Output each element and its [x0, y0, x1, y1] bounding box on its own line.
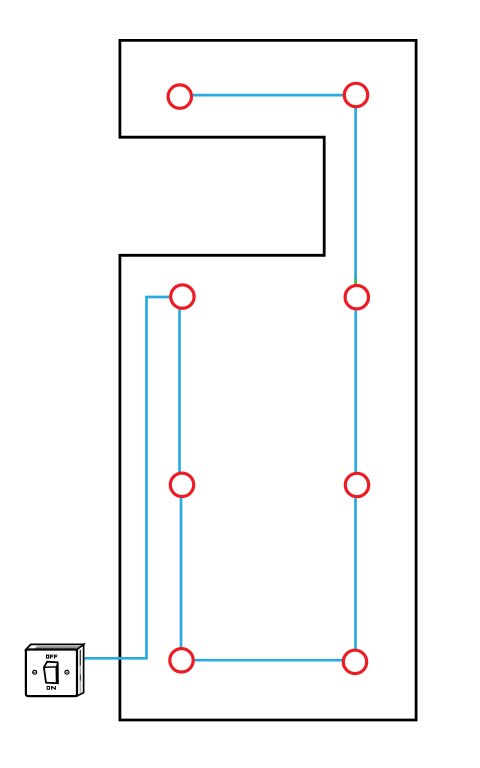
switch top face shading dark	[35, 646, 83, 648]
lamp L3	[170, 473, 193, 496]
switch right face	[77, 644, 84, 696]
toggle body	[44, 662, 58, 684]
label ON	[47, 686, 56, 690]
switch right face streak low	[79, 675, 81, 681]
switch right face streak top	[79, 650, 81, 666]
toggle top face line	[44, 666, 56, 668]
lamp R1	[344, 83, 367, 106]
screw left	[33, 670, 37, 674]
switch top face	[26, 644, 84, 649]
wire W2: lamp R1 down to lamp R2	[354, 108, 357, 281]
lamp L1	[168, 85, 191, 108]
lamp L4	[170, 649, 193, 672]
green stub above lamp R2	[354, 279, 357, 284]
switch right face shading	[80, 650, 82, 694]
label OFF	[46, 655, 57, 659]
wire W8: switch to lamp L2	[83, 297, 170, 658]
toggle right bar	[56, 662, 58, 683]
wire W3: lamp R2 down to lamp R3	[354, 310, 357, 472]
switch top face shading light	[38, 645, 84, 646]
wire W5: lamp R4 left to lamp L4	[194, 659, 342, 662]
room outline	[120, 40, 416, 720]
lamp L2	[171, 285, 194, 308]
switch front plate	[26, 650, 77, 697]
screw right	[65, 670, 69, 674]
lamp R3	[345, 473, 368, 496]
lamp R2	[345, 286, 368, 309]
wire W7: lamp L3 up to lamp L2	[178, 309, 181, 472]
lamp R4	[343, 650, 366, 673]
wire W4: lamp R3 down to lamp R4	[354, 498, 357, 649]
wire W6: lamp L4 up to lamp L3	[180, 498, 183, 648]
switch S1	[26, 644, 84, 696]
wire W1: lamp L1 to lamp R1	[193, 94, 345, 97]
